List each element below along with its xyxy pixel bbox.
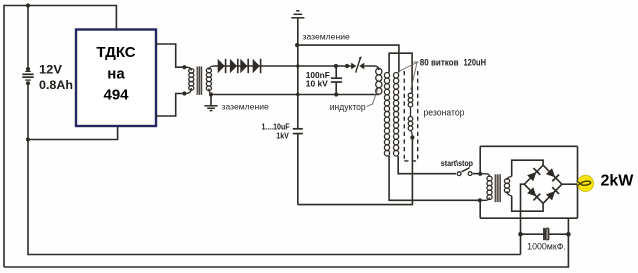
- node switch to T2 primary top: [478, 172, 482, 176]
- wire spark gap to inductor top: [364, 66, 379, 70]
- wire ground stub down to HV node: [297, 18, 299, 45]
- switch SA1 start/stop: [457, 168, 480, 176]
- wire output loop left lower: [479, 200, 481, 218]
- wire battery minus down to bottom rail 1: [28, 83, 521, 254]
- resonator form dashed right: [417, 71, 419, 161]
- node T1 primary bottom: [182, 91, 186, 95]
- node lower bus crossing: [296, 93, 299, 96]
- diode VD7 lower-left: [527, 187, 541, 201]
- wire TDKS bottom stub: [28, 126, 118, 140]
- wire output loop top: [480, 145, 577, 147]
- transformer T2 secondary winding: [507, 177, 512, 181]
- node resonator tap: [410, 135, 414, 139]
- wire TDKS output upper to T1 primary top: [156, 44, 186, 67]
- leader line induktor: [367, 88, 379, 107]
- node C1 bottom: [334, 92, 338, 96]
- transformer T1 secondary turns: [206, 68, 211, 90]
- node HV bus crossing: [296, 64, 299, 67]
- node battery plus junction: [26, 3, 30, 7]
- svg-text:120uH: 120uH: [464, 58, 487, 68]
- wire vertical bus to C2: [297, 45, 299, 128]
- node T1 secondary bottom / ground junction: [209, 92, 213, 96]
- wire C3 right leg down to rail 2: [4, 234, 568, 267]
- lamp HL1 2kW: [577, 175, 594, 191]
- wire return bus T1 to inductor bottom: [214, 94, 379, 96]
- wire output loop left upper: [479, 146, 481, 174]
- node spark gap left: [345, 64, 349, 68]
- diode VD4: [253, 59, 260, 73]
- wire resonator top link (inverted U): [389, 53, 412, 93]
- wire C2 bottom to resonator tap: [298, 138, 413, 205]
- transformer T1 secondary winding: [209, 66, 214, 70]
- capacitor C2 1...10uF 1kV: [293, 129, 303, 205]
- svg-text:заземление: заземление: [222, 102, 269, 112]
- spark gap FV1: [351, 56, 364, 72]
- svg-text:ТДКС: ТДКС: [96, 44, 135, 61]
- node capacitor C1 top: [334, 64, 338, 68]
- resonator tap coil upper turns: [408, 93, 413, 107]
- wire resonator left column to T2 primary bottom: [389, 156, 478, 200]
- transformer T1 primary turns: [189, 69, 194, 91]
- wire bridge DC plus to lamp branch: [562, 183, 578, 185]
- node battery minus / TDKS bottom junction: [26, 137, 30, 141]
- block TDKS na 494 flyback module: [76, 30, 156, 127]
- node resonator feed junction: [295, 43, 299, 47]
- wire tap coil link: [410, 107, 412, 117]
- svg-text:494: 494: [103, 86, 129, 103]
- wire tap coil to tap node: [411, 131, 413, 138]
- resonator form dashed bottom: [404, 160, 417, 162]
- svg-text:резонатор: резонатор: [424, 108, 465, 118]
- wire battery branch upper: [27, 6, 29, 70]
- resonator tap coil lower turns: [408, 116, 413, 130]
- resonator form dashed left: [403, 71, 405, 161]
- transformer T1 core: [197, 66, 203, 94]
- wire output loop bottom: [480, 217, 577, 219]
- wire output loop right (lamp branch): [577, 146, 579, 218]
- wire bridge DC minus down to rail 1: [521, 184, 525, 254]
- svg-text:2kW: 2kW: [601, 172, 635, 189]
- transformer T2 core: [495, 174, 501, 202]
- wire top rail from left vertical to TDKS box top: [4, 6, 116, 268]
- svg-text:start\stop: start\stop: [441, 158, 473, 168]
- diode VD8 lower-right: [546, 187, 560, 201]
- diode VD5 upper-left: [527, 168, 541, 182]
- capacitor C1 100nF 10kV: [331, 66, 342, 95]
- node T1 primary top: [182, 65, 186, 69]
- ground symbol at T1 secondary: [204, 105, 217, 107]
- resonator L2 left column turns: [384, 73, 389, 156]
- transformer T1 primary winding: [186, 67, 191, 70]
- node C3 left: [518, 232, 523, 237]
- wire ground stub: [210, 95, 212, 106]
- node C3 right: [566, 232, 571, 237]
- battery GB1 12V terminals and plates: [22, 67, 33, 85]
- wire C3 row: [521, 233, 569, 235]
- bridge diamond outline: [524, 165, 562, 203]
- diode VD1: [218, 59, 225, 73]
- diode VD6 upper-right: [546, 168, 560, 182]
- inductor L1 turns: [376, 68, 382, 94]
- diode VD3: [240, 59, 247, 73]
- svg-text:10 kV: 10 kV: [306, 79, 328, 89]
- svg-text:на: на: [107, 65, 125, 82]
- svg-text:заземление: заземление: [303, 32, 350, 42]
- svg-text:12V: 12V: [39, 63, 62, 77]
- svg-text:индуктор: индуктор: [330, 102, 366, 112]
- wire HV node to resonator center top: [297, 45, 399, 72]
- diode VD2: [230, 59, 237, 73]
- svg-text:1kV: 1kV: [276, 131, 289, 141]
- capacitor C3 1000uF electrolytic: [544, 228, 549, 240]
- wire resonator right column to start/stop switch: [398, 156, 456, 174]
- wire T1 secondary top to spark gap: [214, 65, 353, 67]
- transformer T2 primary turns: [487, 176, 492, 199]
- node T2 primary bottom: [478, 198, 482, 202]
- resonator L2 right column turns: [394, 73, 399, 156]
- svg-text:1000мкФ.: 1000мкФ.: [527, 242, 566, 252]
- ground symbol top (inverted): [291, 17, 304, 19]
- leader lines 80 vitkov: [414, 61, 419, 63]
- wire T2 secondary top to bridge AC top: [512, 160, 543, 176]
- wire C3 right leg up to loop bottom: [567, 218, 569, 234]
- transformer T2 primary winding: [480, 174, 489, 177]
- svg-text:0.8Ah: 0.8Ah: [39, 78, 73, 92]
- svg-text:80 витков: 80 витков: [420, 58, 459, 68]
- wire T2 secondary bottom to bridge AC bottom: [512, 196, 543, 211]
- wire TDKS output lower to T1 primary bottom: [156, 94, 186, 117]
- transformer T2 secondary turns: [504, 179, 509, 193]
